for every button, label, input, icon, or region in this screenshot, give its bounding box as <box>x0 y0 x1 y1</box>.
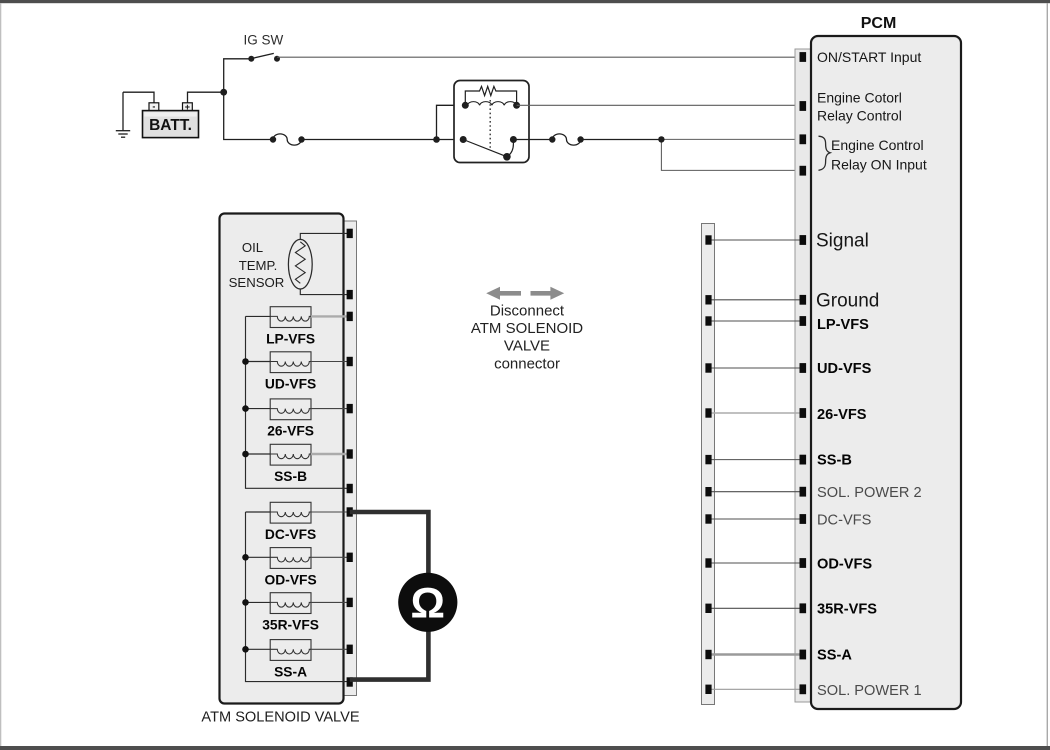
solenoid coil UD-VFS <box>270 352 311 373</box>
harness pin UD-VFS <box>705 363 711 372</box>
relay resistor <box>465 86 516 105</box>
harness pin 35R-VFS <box>705 604 711 613</box>
wire coil OD-VFS to left bus <box>246 556 271 558</box>
svg-text:Ω: Ω <box>411 580 445 628</box>
ATM pin 35R-VFS <box>347 598 353 607</box>
wire harness to PCM UD-VFS <box>709 367 800 369</box>
wire fuse to relay <box>302 139 464 141</box>
wire coil UD-VFS to ATM pin <box>311 361 347 363</box>
relay coil pin left <box>462 102 469 109</box>
PCM pin DC-VFS <box>800 514 807 524</box>
wire coil UD-VFS to left bus <box>246 361 271 363</box>
svg-text:SS-A: SS-A <box>274 664 307 679</box>
wire fuse2 to branch node <box>581 139 662 141</box>
wire coil 35R-VFS to left bus <box>246 601 271 603</box>
wire coil SS-A to left bus <box>246 648 271 650</box>
wire coil LP-VFS to left bus <box>246 315 271 317</box>
svg-text:TEMP.: TEMP. <box>239 258 278 273</box>
wire node to PCM relay ON input 2 <box>661 139 799 170</box>
svg-text:ON/START Input: ON/START Input <box>817 49 921 65</box>
wire harness to PCM Signal <box>709 239 800 241</box>
fuse F2 <box>549 134 584 145</box>
harness pin LP-VFS <box>705 316 711 325</box>
PCM box <box>811 36 961 709</box>
svg-text:SS-B: SS-B <box>817 453 852 469</box>
wire harness to PCM SS-A <box>709 653 800 655</box>
wire coil 26-VFS to ATM pin <box>311 408 347 410</box>
PCM pin Ground <box>800 295 807 305</box>
wire harness to PCM 35R-VFS <box>709 607 800 609</box>
wire coil SS-B to left bus <box>246 453 271 455</box>
arrow left <box>486 287 521 300</box>
wire coil DC-VFS to ATM pin <box>311 511 347 513</box>
svg-text:LP-VFS: LP-VFS <box>817 317 869 333</box>
wire harness to PCM Ground <box>709 299 800 301</box>
ATM pin sensor hi <box>347 229 353 238</box>
wire coil SS-A to ATM pin <box>311 648 347 650</box>
wire relay coil to PCM relay control <box>517 104 800 106</box>
wire coil OD-VFS to ATM pin <box>311 556 347 558</box>
svg-text:SOL. POWER 1: SOL. POWER 1 <box>817 683 922 699</box>
harness pin SOL. POWER 1 <box>705 685 711 694</box>
PCM pin 26-VFS <box>800 408 807 418</box>
svg-text:Engine Control: Engine Control <box>831 137 924 153</box>
PCM connector strip <box>795 49 811 702</box>
svg-text:Relay Control: Relay Control <box>817 108 902 124</box>
svg-text:VALVE: VALVE <box>504 338 550 355</box>
arrow right <box>531 287 565 300</box>
PCM pin Engine Control Relay ON 2 <box>800 166 807 176</box>
svg-text:OIL: OIL <box>242 240 263 255</box>
relay plunger dotted link <box>489 100 491 150</box>
svg-text:Disconnect: Disconnect <box>490 302 565 319</box>
ATM pin LP-VFS <box>347 312 353 321</box>
solenoid coil DC-VFS <box>270 502 311 523</box>
solenoid coil SS-A <box>270 640 311 661</box>
ATM SOLENOID VALVE box <box>220 214 344 704</box>
wire harness to PCM OD-VFS <box>709 562 800 564</box>
svg-text:35R-VFS: 35R-VFS <box>817 602 877 618</box>
wire junction to relay coil <box>437 105 466 139</box>
svg-text:SENSOR: SENSOR <box>229 275 285 290</box>
page top border <box>0 0 1050 3</box>
svg-text:OD-VFS: OD-VFS <box>817 557 872 573</box>
harness pin OD-VFS <box>705 558 711 567</box>
harness pin Ground <box>705 295 711 304</box>
wire junction up to ignition switch <box>224 59 252 92</box>
PCM pin OD-VFS <box>800 558 807 568</box>
harness pin 26-VFS <box>705 408 711 417</box>
svg-text:connector: connector <box>494 355 560 372</box>
wire junction down to fuse <box>224 92 273 139</box>
PCM pin SS-B <box>800 455 807 465</box>
solenoid coil 35R-VFS <box>270 593 311 614</box>
wire coil LP-VFS to ATM pin <box>311 315 347 317</box>
harness pin DC-VFS <box>705 514 711 523</box>
wire coil DC-VFS to left bus <box>246 511 271 513</box>
svg-text:Signal: Signal <box>816 231 869 252</box>
PCM pin Engine Control Relay ON 1 <box>800 134 807 144</box>
wire battery positive to junction <box>188 92 224 103</box>
wire relay to fuse2 <box>513 139 552 141</box>
solenoid coil 26-VFS <box>270 399 311 420</box>
brace Engine Control Relay ON Input <box>819 136 831 170</box>
svg-text:IG SW: IG SW <box>244 33 284 48</box>
node battery junction <box>220 89 227 96</box>
ATM pin SS-A <box>347 645 353 654</box>
solenoid coil OD-VFS <box>270 548 311 569</box>
PCM pin Signal <box>800 235 807 245</box>
node bus2 SS-A <box>242 646 249 653</box>
svg-text:SS-A: SS-A <box>817 648 852 664</box>
svg-text:DC-VFS: DC-VFS <box>265 527 316 542</box>
svg-text:26-VFS: 26-VFS <box>267 424 314 439</box>
ATM pin DC-VFS <box>347 507 353 516</box>
svg-text:UD-VFS: UD-VFS <box>265 377 316 392</box>
page left border <box>0 3 1 746</box>
ATM pin SOL. POWER 1 <box>347 677 353 686</box>
wire node to PCM relay ON input 1 <box>661 138 799 140</box>
bus group1 (LP..SS-B to SOL.POWER2 pin) <box>246 316 348 488</box>
PCM pin UD-VFS <box>800 363 807 373</box>
page bottom border <box>0 746 1050 750</box>
svg-text:DC-VFS: DC-VFS <box>817 513 872 529</box>
PCM pin Engine Cotorl Relay Control <box>800 101 807 111</box>
harness pin SOL. POWER 2 <box>705 487 711 496</box>
oil temp sensor <box>288 239 312 289</box>
wire coil 35R-VFS to ATM pin <box>311 601 347 603</box>
svg-text:ATM SOLENOID: ATM SOLENOID <box>471 320 583 337</box>
wire sensor top to pin <box>300 233 347 239</box>
wire harness to PCM SOL. POWER 2 <box>709 491 800 493</box>
svg-text:BATT.: BATT. <box>149 117 192 134</box>
wire IG SW to PCM ON/START Input <box>277 56 800 58</box>
node bus1 26-VFS <box>242 405 249 412</box>
relay switch blade <box>463 140 505 157</box>
wire harness to PCM 26-VFS <box>709 412 800 414</box>
solenoid coil LP-VFS <box>270 307 311 328</box>
svg-text:PCM: PCM <box>861 15 897 32</box>
relay coil pin right <box>513 102 520 109</box>
svg-text:ATM SOLENOID VALVE: ATM SOLENOID VALVE <box>201 710 359 726</box>
PCM pin ON/START Input <box>800 52 807 62</box>
note Disconnect ATM SOLENOID VALVE connector <box>471 302 583 372</box>
wire coil SS-B to ATM pin <box>311 453 347 455</box>
wire harness to PCM SS-B <box>709 459 800 461</box>
node bus2 OD-VFS <box>242 554 249 561</box>
ATM pin sensor lo <box>347 290 353 299</box>
battery BATT. <box>143 102 199 138</box>
svg-text:SOL. POWER 2: SOL. POWER 2 <box>817 485 922 501</box>
ATM pin SS-B <box>347 449 353 458</box>
harness pin Signal <box>705 235 711 244</box>
ATM pin OD-VFS <box>347 553 353 562</box>
ATM connector strip <box>344 221 357 696</box>
ohmmeter leads (thick wire) <box>350 512 429 680</box>
wire battery negative to ground <box>123 92 154 103</box>
harness connector strip <box>702 224 715 705</box>
harness pin SS-B <box>705 455 711 464</box>
relay switch common link <box>507 140 514 157</box>
svg-text:UD-VFS: UD-VFS <box>817 361 872 377</box>
node bus1 SS-B <box>242 451 249 458</box>
harness pin SS-A <box>705 650 711 659</box>
wire sensor bottom to pin <box>300 289 347 295</box>
svg-text:26-VFS: 26-VFS <box>817 407 867 423</box>
relay box <box>454 81 529 163</box>
relay coil <box>467 102 516 106</box>
ATM pin 26-VFS <box>347 404 353 413</box>
svg-text:Ground: Ground <box>816 291 879 312</box>
svg-text:LP-VFS: LP-VFS <box>266 331 315 346</box>
PCM pin LP-VFS <box>800 316 807 326</box>
bus group2 (DC..SS-A to SOL.POWER1 pin) <box>246 512 348 682</box>
ATM pin SOL. POWER 2 <box>347 484 353 493</box>
ignition switch IG SW <box>248 53 280 61</box>
wire harness to PCM DC-VFS <box>709 518 800 520</box>
svg-text:OD-VFS: OD-VFS <box>265 572 317 587</box>
wire coil 26-VFS to left bus <box>246 408 271 410</box>
PCM pin 35R-VFS <box>800 603 807 613</box>
svg-text:Relay ON Input: Relay ON Input <box>831 157 927 173</box>
PCM pin SS-A <box>800 650 807 660</box>
ohmmeter <box>398 573 457 632</box>
node bus2 35R-VFS <box>242 599 249 606</box>
ATM pin UD-VFS <box>347 357 353 366</box>
node bus1 UD-VFS <box>242 358 249 365</box>
solenoid coil SS-B <box>270 444 311 465</box>
svg-text:SS-B: SS-B <box>274 469 307 484</box>
wire harness to PCM LP-VFS <box>709 320 800 322</box>
wire harness to PCM SOL. POWER 1 <box>709 688 800 690</box>
relay switch pin left <box>460 136 467 143</box>
ground <box>116 92 130 137</box>
svg-text:Engine Cotorl: Engine Cotorl <box>817 90 902 106</box>
relay switch pin right <box>510 136 517 143</box>
svg-text:35R-VFS: 35R-VFS <box>262 617 319 632</box>
PCM pin SOL. POWER 1 <box>800 684 807 694</box>
page right border <box>1047 3 1048 746</box>
node relay ON branch <box>658 136 664 142</box>
PCM pin SOL. POWER 2 <box>800 487 807 497</box>
node relay feed junction <box>433 136 440 143</box>
fuse F1 <box>270 134 305 145</box>
relay switch pin common <box>503 153 511 161</box>
